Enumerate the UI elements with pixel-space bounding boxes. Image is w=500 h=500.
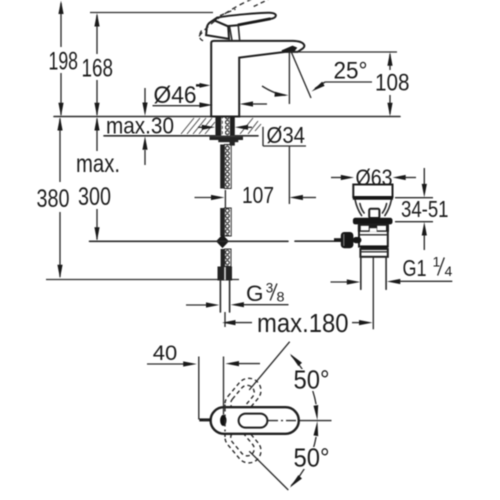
svg-text:34-51: 34-51 (401, 196, 449, 222)
lever neck (230, 25, 240, 40)
pop-up rod horizontal (90, 240, 289, 242)
pop-up waste: Ø63 dimension (331, 175, 416, 180)
lever knob capsule (plan) (239, 414, 268, 428)
svg-text:G1: G1 (403, 255, 427, 281)
body capsule (plan) (211, 407, 299, 434)
svg-text:25°: 25° (334, 58, 368, 85)
pivot dot (220, 415, 226, 426)
swing arc with arrow (262, 86, 286, 95)
label 50° upper (291, 367, 332, 395)
arrow pair at shank (deck hole) (198, 125, 252, 130)
break centerline in shank gap (224, 190, 226, 208)
label G3/8 with leader (186, 280, 289, 308)
svg-text:max.: max. (76, 150, 120, 178)
hose nut (G3/8 nipple) (218, 267, 233, 281)
svg-text:300: 300 (78, 183, 111, 211)
deck hatch right (240, 118, 261, 134)
svg-text:8: 8 (277, 289, 285, 305)
vertical centerline at pivot (224, 405, 226, 438)
lever blade underside shade (238, 19, 271, 25)
arc lower with arrows (290, 421, 318, 488)
rod ball joint (dark) (334, 232, 361, 248)
svg-text:4: 4 (445, 263, 453, 279)
dimension max.30 arrows (142, 88, 147, 165)
25° slanted ray (292, 53, 312, 99)
extension line at hose end (y=279.5) (46, 279, 239, 281)
hose thread below junction (221, 249, 225, 267)
label 25° with leader (312, 58, 373, 92)
mounting nut under deck (210, 137, 244, 146)
dimension 34-51 (395, 168, 433, 250)
waste lower box (360, 249, 387, 257)
dimension max.300 line (94, 117, 99, 241)
svg-text:G: G (246, 281, 264, 306)
faucet body (211, 41, 304, 117)
dimension 198 line (58, 1, 63, 117)
deck bottom line (104, 135, 258, 137)
svg-text:108: 108 (375, 70, 410, 97)
waste top cap (353, 185, 393, 199)
dimension 40 (147, 341, 260, 420)
dimension G1 1/4 (331, 254, 453, 285)
deck top line (54, 116, 400, 118)
waste trumpet taper (355, 200, 391, 216)
svg-text:3: 3 (266, 280, 274, 296)
dashed rotated handle (upper, +50°) (220, 373, 266, 421)
dashed raised lever (199, 0, 252, 36)
dimension 168 line (94, 13, 99, 116)
50° ray lower (249, 451, 288, 490)
threaded shank segment 2 (220, 208, 231, 236)
dimension 108 (288, 52, 397, 116)
svg-text:1: 1 (433, 254, 441, 270)
svg-text:50°: 50° (294, 367, 330, 395)
svg-text:Ø34: Ø34 (267, 122, 306, 148)
svg-text:50°: 50° (294, 445, 330, 473)
hose tube (220, 281, 229, 313)
label Ø46 with underline leader (153, 82, 213, 109)
svg-text:198: 198 (49, 48, 79, 76)
deck hatch left (181, 118, 215, 134)
junction diamond node (216, 235, 229, 249)
svg-text:107: 107 (242, 182, 274, 208)
svg-text:max.30: max.30 (106, 113, 174, 139)
faucet shank through deck (dark block) (215, 117, 234, 135)
tailpipe centerline (372, 257, 374, 329)
label Ø34 with bracket leader (263, 122, 306, 148)
50° ray upper (249, 342, 290, 390)
arrow at body right edge (Ø46 right) (240, 101, 267, 106)
dimension 380 line (57, 117, 62, 278)
svg-text:380: 380 (37, 185, 70, 213)
label 50° lower (291, 445, 332, 473)
spout aerator tip (dark) (282, 46, 298, 53)
waste lift knob (369, 209, 379, 218)
waste lower dark band (360, 245, 387, 249)
arrow at body left edge (upper) (196, 83, 210, 88)
lever blade (215, 13, 276, 26)
extension line stub to pivot (223, 409, 225, 415)
svg-text:Ø46: Ø46 (154, 82, 197, 109)
waste flange (dark band) (353, 218, 393, 225)
lever front boss (206, 18, 229, 39)
horizontal centerline (203, 420, 301, 422)
hose centerline stub (224, 312, 226, 327)
dimension max.180 (222, 320, 373, 325)
waste tailpipe (361, 257, 386, 290)
threaded shank segment 1 (220, 145, 231, 189)
svg-text:168: 168 (82, 55, 114, 83)
centerline from Ø34 to 107 (x=289.4) (288, 146, 290, 204)
dimension 107 (195, 195, 317, 200)
arc upper with arrows (290, 354, 318, 421)
left stub (199, 418, 211, 421)
dashed raised boss arc (200, 31, 205, 42)
waste body (358, 224, 389, 246)
extension line top of lever (y=12.5) (90, 12, 213, 14)
25° vertical ray from spout tip (288, 53, 290, 105)
svg-text:40: 40 (153, 341, 178, 365)
svg-text:max.180: max.180 (257, 310, 349, 338)
dashed rotated handle (lower, -50°) (220, 420, 266, 468)
